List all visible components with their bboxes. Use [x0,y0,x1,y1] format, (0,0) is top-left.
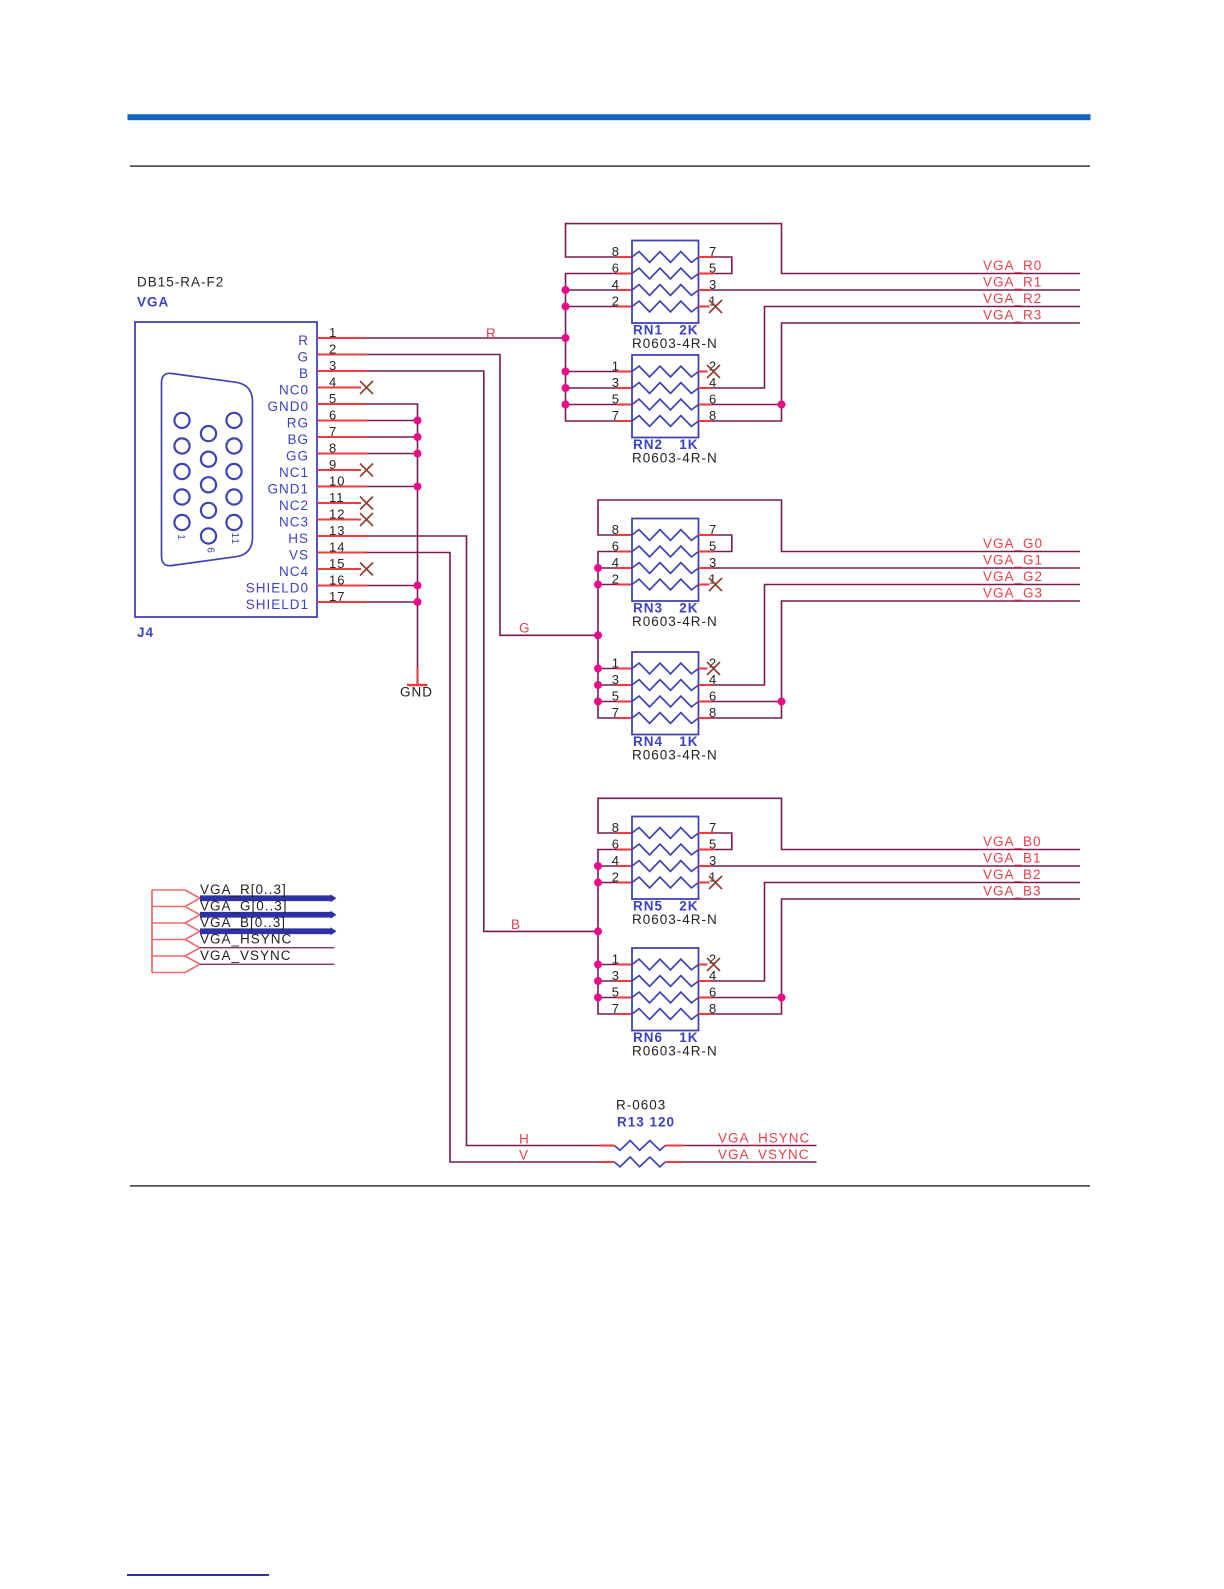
svg-text:6: 6 [204,547,215,554]
page top blue bar [128,114,1091,120]
resistor network RN1 2K [632,241,699,324]
svg-text:J4: J4 [137,625,154,640]
no-connect X pin 15 [360,563,373,576]
svg-text:VGA_B[0..3]: VGA_B[0..3] [200,915,286,930]
port stub [152,972,185,974]
wire GND0 to ground bus [367,404,418,668]
svg-text:NC4: NC4 [279,564,309,579]
svg-text:VGA_B1: VGA_B1 [983,851,1042,866]
J4 connector body [135,322,317,617]
net line VGA_G2 + feeder from RN4 pin 4 [712,585,1080,686]
stub RN5 pin 4 [617,865,632,867]
svg-text:11: 11 [229,533,240,545]
pin 3 stub [317,370,367,372]
pin 15 stub (NC) [317,568,361,570]
svg-text:8: 8 [612,244,620,259]
svg-text:R: R [298,333,309,348]
stub RN2 pin 3 [617,387,632,389]
svg-text:R0603-4R-N: R0603-4R-N [632,912,718,927]
wire RN2 pin 3 [566,387,618,389]
RN3 pin 1 no-connect [699,583,710,585]
net line VGA_R2 + feeder from RN2 pin 4 [712,307,1080,389]
junction bus G / RN3 pin 4 [594,564,602,572]
wire RN6 pin 1 [598,964,617,966]
junction bus R / net R [562,334,570,342]
svg-text:VGA_R3: VGA_R3 [983,308,1042,323]
pin 4 stub (NC) [317,386,361,388]
svg-text:4: 4 [612,853,620,868]
svg-text:1: 1 [612,952,620,967]
wire RN6 pin 5 [598,997,617,999]
svg-text:R0603-4R-N: R0603-4R-N [632,614,718,629]
stub RN5 pin 6 [617,848,632,850]
no-connect X RN6 pin 2 [707,958,720,971]
bus VGA_R[0..3] [200,894,337,902]
RN6 pin 2 no-connect [699,963,708,965]
pin 16 stub [317,584,367,586]
svg-text:R13 120: R13 120 [617,1115,675,1130]
svg-text:5: 5 [612,985,620,1000]
bus VGA_G[0..3] [200,911,337,919]
port stub [152,939,185,941]
stub RN3 pin 8 [617,534,632,536]
port chevron [185,890,200,907]
svg-text:VGA_B3: VGA_B3 [983,884,1042,899]
wire RN2 pin 6 [699,403,713,405]
RN2 pin 2 no-connect [699,370,708,372]
svg-text:4: 4 [612,555,620,570]
svg-text:1: 1 [612,656,620,671]
pin 9 stub (NC) [317,469,361,471]
wire RN3 pin 3 -> VGA_G1 [699,567,713,569]
junction GG [414,450,422,458]
junction bus R / RN1 pin 2 [562,303,570,311]
D-sub shell outline [162,373,253,565]
wire VS (pin14) [367,553,599,1163]
svg-text:VGA_VSYNC: VGA_VSYNC [200,948,292,963]
wire RN6 pin 4 [699,980,713,982]
stub RN5 pin 8 [617,832,632,834]
pin 1 stub [317,337,367,339]
svg-text:R: R [486,326,497,341]
stub RN3 pin 2 [617,583,632,585]
stub RN1 pin 2 [617,305,632,307]
RN5 pin 1 no-connect [699,881,710,883]
port stub [152,955,185,957]
stub RN1 pin 8 [617,256,632,258]
stub RN2 pin 1 [617,370,632,372]
svg-text:2: 2 [612,870,620,885]
svg-text:VS: VS [289,548,309,563]
svg-text:7: 7 [612,1001,620,1016]
RN4 pin 2 no-connect [699,667,708,669]
wire RG to ground bus [367,420,418,422]
wire RN2 pin 1 [566,371,618,373]
wire RN4 pin 6 [699,700,713,702]
svg-text:6: 6 [612,261,620,276]
svg-text:R-0603: R-0603 [616,1098,666,1113]
svg-text:GND: GND [400,685,433,700]
wire top loop B / net line VGA_B0 [598,798,1080,849]
RN1 pin 1 no-connect [699,305,710,307]
svg-text:RG: RG [287,416,309,431]
svg-text:VGA_G1: VGA_G1 [983,553,1043,568]
wire RN3 pin 4 [598,567,617,569]
junction RG [414,417,422,425]
svg-text:7: 7 [612,408,620,423]
port block vertical [151,890,153,973]
svg-text:B: B [511,917,521,932]
svg-text:G: G [519,621,531,636]
svg-text:VGA_G2: VGA_G2 [983,569,1043,584]
tie RN5 pins 7-5 [699,832,715,834]
stub RN2 pin 7 [617,420,632,422]
wire H horizontal [599,1144,614,1146]
junction bus B / RN6 pin 5 [594,994,602,1002]
no-connect X RN2 pin 2 [707,365,720,378]
svg-text:GG: GG [286,449,309,464]
svg-text:4: 4 [612,277,620,292]
svg-text:R0603-4R-N: R0603-4R-N [632,1044,718,1059]
resistor body H [614,1141,665,1151]
no-connect X RN3 pin 1 [709,578,722,591]
bus B vertical [598,850,617,1015]
svg-text:VGA_B2: VGA_B2 [983,867,1042,882]
stub RN6 pin 7 [617,1013,632,1015]
net line VGA_R3 + feeder from RN2 pin 6 [782,323,1081,405]
svg-text:VGA_HSYNC: VGA_HSYNC [718,1131,810,1146]
stub RN6 pin 1 [617,963,632,965]
svg-text:NC3: NC3 [279,515,309,530]
stub RN6 pin 3 [617,980,632,982]
resistor network RN3 2K [632,519,699,602]
junction bus G / RN3 pin 2 [594,581,602,589]
junction bus R / RN2 pin 5 [562,401,570,409]
port chevron [185,956,200,973]
svg-text:H: H [519,1131,530,1146]
tie RN1 pins 7-5 [699,256,715,258]
stub RN4 pin 1 [617,667,632,669]
resistor network RN6 1K [632,948,699,1031]
svg-text:R0603-4R-N: R0603-4R-N [632,451,718,466]
net line VGA_G3 + feeder from RN4 pin 6 [782,601,1081,702]
wire RN4 pin 3 [598,684,617,686]
pin 10 stub [317,485,367,487]
stub RN4 pin 7 [617,717,632,719]
junction bus R / RN1 pin 4 [562,286,570,294]
wire RN4 pin 1 [598,668,617,670]
wire RN2 pin 5 [566,404,618,406]
pin 17 stub [317,601,367,603]
junction SHIELD0 [414,582,422,590]
pin 12 stub (NC) [317,518,361,520]
wire G (pin2) [367,355,598,636]
svg-text:VGA_R1: VGA_R1 [983,275,1042,290]
svg-text:VGA_R[0..3]: VGA_R[0..3] [200,882,287,897]
svg-text:VGA_G[0..3]: VGA_G[0..3] [200,898,288,913]
header rule [130,165,1090,166]
wire RN6 pin 8 [699,1013,713,1015]
no-connect X RN1 pin 1 [709,300,722,313]
svg-text:HS: HS [288,531,309,546]
pin 6 stub [317,419,367,421]
svg-text:7: 7 [612,705,620,720]
svg-text:3: 3 [612,672,620,687]
svg-text:6: 6 [612,837,620,852]
bus VGA_B[0..3] [200,927,337,935]
junction BG [414,433,422,441]
footer rule [130,1185,1090,1186]
tie RN3 pins 7-5 [699,534,715,536]
svg-text:2: 2 [612,294,620,309]
wire RN3 pin 2 [598,584,617,586]
wire BG to ground bus [367,436,418,438]
svg-text:BG: BG [287,432,309,447]
svg-text:GND0: GND0 [267,399,309,414]
wire V horizontal [599,1161,614,1163]
wire SHIELD1 to ground bus [367,601,418,603]
stub RN6 pin 5 [617,996,632,998]
pin 11 stub (NC) [317,502,361,504]
stub RN3 pin 6 [617,550,632,552]
no-connect X RN5 pin 1 [709,876,722,889]
wire SHIELD0 to ground bus [367,585,418,587]
junction bus G / RN4 pin 1 [594,665,602,673]
resistor network RN5 2K [632,817,699,900]
svg-text:2: 2 [612,572,620,587]
svg-text:G: G [297,350,309,365]
port chevron [185,923,200,940]
svg-text:VGA_R0: VGA_R0 [983,258,1042,273]
svg-text:NC2: NC2 [279,498,309,513]
wire RN1 pin 3 -> VGA_R1 [699,289,713,291]
wire RN4 pin 4 [699,684,713,686]
junction SHIELD1 [414,598,422,606]
svg-text:NC0: NC0 [279,383,309,398]
svg-text:VGA_VSYNC: VGA_VSYNC [718,1147,810,1162]
ground symbol [416,668,418,685]
wire R (pin1) [367,337,566,339]
wire RN5 pin 2 [598,882,617,884]
wire RN4 pin 5 [598,701,617,703]
bus G vertical [598,552,617,719]
connector holes [174,413,189,428]
resistor network RN2 1K [632,355,699,438]
stub RN4 pin 5 [617,700,632,702]
wire RN2 pin 4 [699,387,713,389]
wire RN4 pin 8 [699,717,713,719]
svg-text:R0603-4R-N: R0603-4R-N [632,748,718,763]
svg-text:VGA_G3: VGA_G3 [983,586,1043,601]
junction RN2 pin6/pin8/VGA_R3 [778,401,786,409]
svg-text:3: 3 [612,968,620,983]
svg-text:VGA_R2: VGA_R2 [983,291,1042,306]
port chevron [185,940,200,957]
no-connect X RN4 pin 2 [707,662,720,675]
junction bus R / RN2 pin 1 [562,368,570,376]
resistor body V [614,1157,665,1167]
stub RN1 pin 6 [617,272,632,274]
junction bus B / RN6 pin 3 [594,977,602,985]
no-connect X pin 9 [360,464,373,477]
pin 5 stub [317,403,367,405]
stub RN3 pin 4 [617,567,632,569]
svg-text:VGA_HSYNC: VGA_HSYNC [200,931,292,946]
svg-text:GND1: GND1 [267,482,309,497]
svg-text:5: 5 [612,392,620,407]
port chevron [185,907,200,924]
junction bus B / RN5 pin 2 [594,879,602,887]
svg-text:VGA: VGA [137,295,169,310]
port stub [152,906,185,908]
stub RN5 pin 2 [617,881,632,883]
svg-text:B: B [299,366,309,381]
wire RN2 pin 8 [699,420,713,422]
junction GND1 [414,483,422,491]
net line VGA_B3 + feeder from RN6 pin 6 [782,899,1081,998]
svg-text:8: 8 [612,522,620,537]
svg-text:R0603-4R-N: R0603-4R-N [632,336,718,351]
svg-text:VGA_B0: VGA_B0 [983,834,1042,849]
svg-text:DB15-RA-F2: DB15-RA-F2 [137,275,224,290]
wire B (pin3) [367,371,598,931]
no-connect X pin 12 [360,513,373,526]
wire top loop R / net line VGA_R0 [566,224,1081,274]
bus R vertical [566,274,618,422]
footnote rule (navy) [127,1574,269,1576]
svg-text:SHIELD0: SHIELD0 [246,581,309,596]
port stub [152,922,185,924]
wire HS (pin13) [367,536,599,1146]
pin 8 stub [317,452,367,454]
wire VGA_VSYNC [200,963,335,965]
svg-text:6: 6 [612,539,620,554]
wire RN1 pin 2 [566,306,618,308]
port stub [152,889,185,891]
wire RN5 pin 4 [598,865,617,867]
stub RN2 pin 5 [617,403,632,405]
wire GND1 to ground bus [367,486,418,488]
pin 14 stub [317,551,367,553]
wire RN6 pin 3 [598,980,617,982]
no-connect X pin 11 [360,497,373,510]
wire RN6 pin 6 [699,996,713,998]
svg-text:8: 8 [612,820,620,835]
stub RN4 pin 3 [617,684,632,686]
net line VGA_B2 + feeder from RN6 pin 4 [712,883,1080,982]
pin 13 stub [317,535,367,537]
resistor network RN4 1K [632,652,699,735]
junction bus R / RN2 pin 3 [562,384,570,392]
junction bus B / RN5 pin 4 [594,862,602,870]
wire RN1 pin 4 [566,289,618,291]
svg-text:VGA_G0: VGA_G0 [983,536,1043,551]
wire top loop G / net line VGA_G0 [598,500,1080,552]
junction bus G / net G [594,631,602,639]
svg-text:NC1: NC1 [279,465,309,480]
no-connect X pin 4 [360,381,373,394]
junction bus G / RN4 pin 5 [594,698,602,706]
junction bus B / RN6 pin 1 [594,961,602,969]
pin 2 stub [317,353,367,355]
svg-text:1: 1 [175,534,186,541]
junction RN6 pin6/pin8/VGA_B3 [778,994,786,1002]
junction bus B / net B [594,927,602,935]
junction bus G / RN4 pin 3 [594,681,602,689]
wire VGA_HSYNC [200,947,335,949]
svg-text:SHIELD1: SHIELD1 [246,597,309,612]
wire GG to ground bus [367,453,418,455]
svg-text:1: 1 [612,359,620,374]
junction RN4 pin6/pin8/VGA_G3 [778,698,786,706]
wire RN5 pin 3 -> VGA_B1 [699,865,713,867]
stub RN1 pin 4 [617,289,632,291]
pin 7 stub [317,436,367,438]
svg-text:5: 5 [612,689,620,704]
svg-text:V: V [519,1147,529,1162]
svg-text:3: 3 [612,375,620,390]
